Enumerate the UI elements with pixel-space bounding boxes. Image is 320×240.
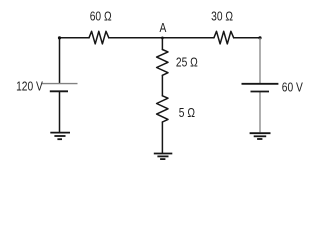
svg-text:25 Ω: 25 Ω	[176, 57, 198, 70]
svg-text:5 Ω: 5 Ω	[179, 107, 196, 120]
svg-text:120 V: 120 V	[16, 80, 43, 93]
svg-text:A: A	[159, 22, 166, 35]
svg-text:60 V: 60 V	[282, 81, 303, 94]
svg-text:30 Ω: 30 Ω	[211, 10, 233, 23]
svg-text:60 Ω: 60 Ω	[90, 10, 112, 23]
